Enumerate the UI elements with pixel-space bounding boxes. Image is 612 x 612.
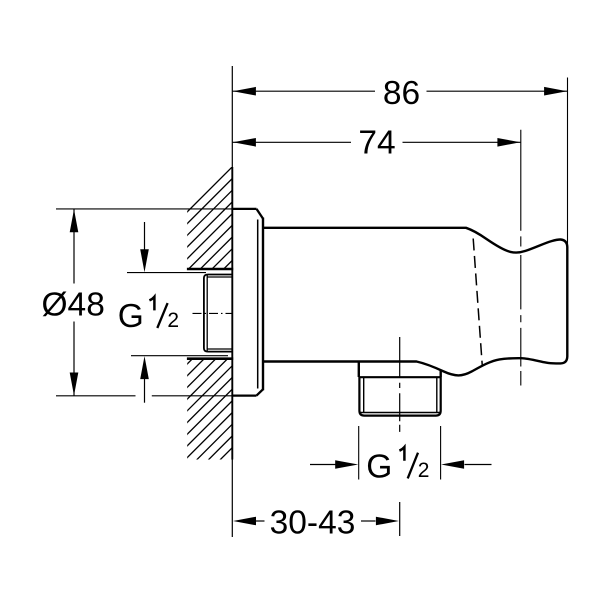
dimension 74 — [232, 141, 351, 143]
inlet centerline — [193, 312, 232, 314]
wall hole bottom edge — [187, 357, 233, 360]
inlet thread G1/2 in wall — [204, 275, 232, 352]
bottom G1/2 arrows — [310, 464, 336, 466]
small thread-length dimension — [127, 272, 206, 274]
dimension Ø48 extensions — [56, 208, 232, 210]
outlet stub — [358, 362, 360, 378]
svg-text:2: 2 — [167, 309, 179, 332]
svg-text:86: 86 — [383, 75, 420, 112]
dimension 86 — [232, 90, 375, 92]
dimension 30-43 — [233, 517, 256, 526]
bottom G1/2 dimension extensions — [358, 426, 360, 480]
wall hole top edge — [187, 268, 233, 271]
svg-text:G: G — [366, 448, 392, 485]
wall line — [231, 66, 233, 537]
svg-text:Ø48: Ø48 — [42, 287, 105, 324]
flange (escutcheon) — [232, 208, 256, 210]
dimension Ø48 — [73, 209, 75, 284]
svg-text:74: 74 — [358, 125, 395, 162]
86 right extension — [567, 78, 569, 245]
wall hatch — [0, 150, 542, 470]
holder hidden edge (dashed) — [473, 239, 482, 367]
svg-text:2: 2 — [418, 459, 430, 482]
outlet centerline — [399, 337, 401, 536]
svg-text:G: G — [118, 298, 144, 335]
outlet thread G1/2 — [359, 376, 441, 378]
holder centerline / 74 extension — [520, 130, 522, 386]
body and holder outline — [264, 228, 568, 376]
svg-text:30-43: 30-43 — [270, 505, 356, 542]
